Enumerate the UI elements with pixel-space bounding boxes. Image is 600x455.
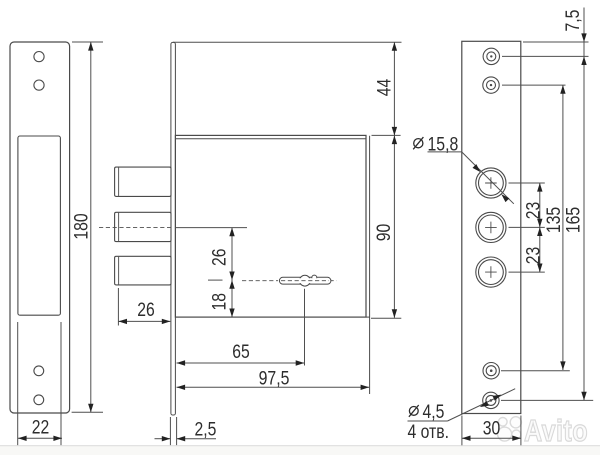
dimension 7.5/165 line xyxy=(583,8,585,401)
dimension 26 bottom line xyxy=(118,320,170,322)
dimension 65 line xyxy=(177,362,305,364)
right view screw hole top 2 xyxy=(483,77,499,93)
left view hole top 2 xyxy=(34,80,44,90)
right view big hole 2 xyxy=(476,212,506,242)
right view screw hole bottom 2 xyxy=(483,392,499,408)
dimension 135 line xyxy=(562,85,564,370)
dimension 26 bottom extension xyxy=(117,288,119,326)
label diameter 15,8 symbol xyxy=(413,137,423,149)
svg-text:180: 180 xyxy=(71,213,93,239)
dimension 2.5 extensions xyxy=(169,417,171,445)
lock case bottom edge stub xyxy=(366,316,370,318)
dimension 180 line xyxy=(90,42,92,412)
svg-text:23: 23 xyxy=(523,247,545,265)
svg-text:30: 30 xyxy=(483,418,501,440)
svg-text:26: 26 xyxy=(209,249,231,267)
bolt 2 xyxy=(115,212,171,241)
svg-text:7,5: 7,5 xyxy=(562,10,584,32)
left view faceplate outline xyxy=(10,42,70,413)
label diameter 4,5 underline xyxy=(408,420,448,422)
left view hole top 1 xyxy=(34,52,44,62)
centerline hole top 2 xyxy=(502,84,566,86)
middle view top extension line xyxy=(173,41,402,43)
centerline big hole 3 xyxy=(509,271,545,273)
dimension 44/90 line xyxy=(393,42,395,318)
svg-text:18: 18 xyxy=(209,293,231,311)
left view hole bottom 1 xyxy=(34,366,44,376)
svg-text:2,5: 2,5 xyxy=(195,419,217,441)
label diameter 4,5 symbol xyxy=(409,405,419,417)
svg-text:Avito: Avito xyxy=(524,413,588,448)
centerline big hole 1 xyxy=(509,182,545,184)
dimension 180 extension bottom xyxy=(72,411,103,413)
keyhole extension line down xyxy=(304,289,306,366)
svg-text:135: 135 xyxy=(543,207,565,233)
left view inner edge line left xyxy=(17,322,19,445)
svg-text:23: 23 xyxy=(523,202,545,220)
keyhole (key cross-section) xyxy=(279,275,331,286)
watermark Avito logo circles xyxy=(498,417,522,441)
dimension 26/18 line xyxy=(231,228,233,318)
left view slot cutout xyxy=(18,136,61,315)
centerline hole top 1 xyxy=(502,55,589,57)
right view big hole 1 xyxy=(476,168,506,198)
left view inner edge line right xyxy=(60,322,62,445)
photo bottom edge xyxy=(0,446,600,455)
svg-text:4,5: 4,5 xyxy=(423,401,445,423)
lock case inner top line xyxy=(175,138,366,140)
right view screw hole top 1 xyxy=(483,48,499,64)
middle view faceplate strip xyxy=(171,42,176,415)
svg-text:22: 22 xyxy=(32,417,50,439)
lock case outer right line / 97.5 extension xyxy=(369,136,371,394)
dimension 180 extension top xyxy=(72,41,103,43)
centerline hole bottom 1 xyxy=(501,370,570,372)
keyhole centerline solid tick xyxy=(208,279,223,281)
svg-text:4 отв.: 4 отв. xyxy=(408,421,450,443)
keyhole centerline dashed right xyxy=(330,280,337,282)
svg-text:97,5: 97,5 xyxy=(259,367,290,389)
right view plate outline xyxy=(462,41,521,413)
svg-text:90: 90 xyxy=(373,224,395,242)
keyhole centerline dashed left xyxy=(242,280,278,282)
dimension 2.5 line segments xyxy=(155,438,171,440)
bolt 2 centerline solid extension xyxy=(175,227,247,229)
svg-text:65: 65 xyxy=(232,341,250,363)
lock case outline xyxy=(175,135,366,317)
leader diameter 4,5 xyxy=(448,389,516,421)
label diameter 15,8 underline xyxy=(428,151,462,153)
svg-text:44: 44 xyxy=(374,79,396,97)
dimension 7.5 extension xyxy=(523,41,589,43)
keyhole inner dashes xyxy=(281,280,329,282)
dimension 30 extensions xyxy=(461,416,463,446)
dimension 23/23 line xyxy=(539,183,541,272)
right view screw hole bottom 1 xyxy=(483,363,499,379)
svg-text:165: 165 xyxy=(563,207,585,233)
centerline big hole 2 xyxy=(509,226,545,228)
bolt 3 xyxy=(115,256,171,285)
bolt 2 centerline dashed xyxy=(99,227,171,229)
dimension 97.5 line xyxy=(177,386,370,388)
dimension 22 line xyxy=(18,437,62,439)
left view hole bottom 2 xyxy=(34,395,44,405)
svg-text:26: 26 xyxy=(137,299,155,321)
right view big hole 3 xyxy=(476,257,506,287)
bolt 1 xyxy=(115,167,171,196)
centerline hole bottom 2 xyxy=(501,399,593,401)
dimension 44/90 extension mid xyxy=(372,134,401,136)
dimension 44/90 extension bottom xyxy=(371,317,401,319)
leader diameter 15,8 xyxy=(462,152,514,204)
dimension 30 line xyxy=(462,437,521,439)
